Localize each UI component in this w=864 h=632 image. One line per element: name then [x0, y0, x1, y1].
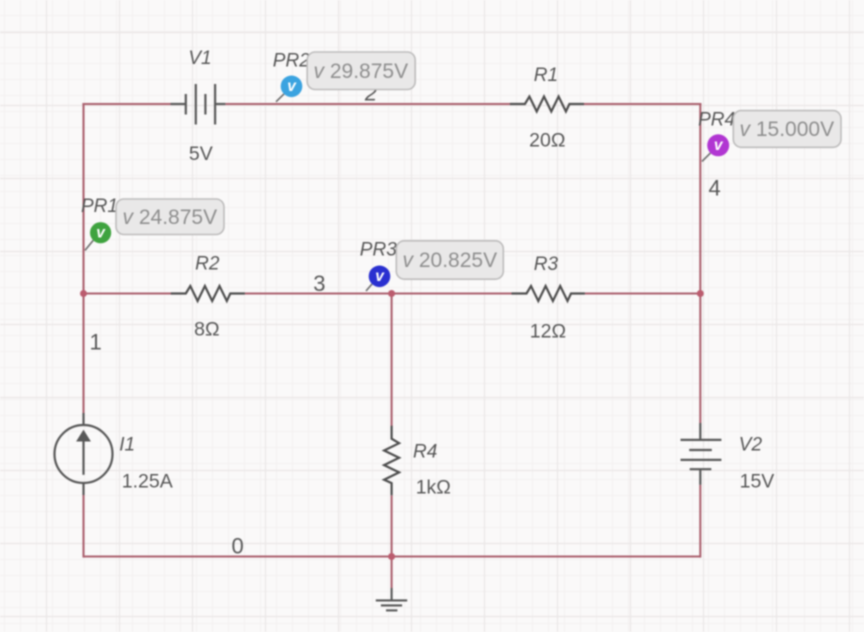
probe PR2 pointer — [276, 94, 284, 102]
svg-text:R2: R2 — [195, 254, 220, 275]
svg-text:3: 3 — [313, 271, 325, 296]
wire: top net 2 from V1 to R1 — [225, 103, 510, 105]
wire: R4 branch from R4 down to bottom net — [391, 495, 393, 556]
wire: middle net 3 from R2 to R3 — [245, 292, 512, 294]
svg-text:V1: V1 — [188, 48, 211, 69]
svg-text:R1: R1 — [534, 65, 558, 86]
junction: right middle node — [697, 290, 704, 297]
svg-text:v 24.875V: v 24.875V — [123, 206, 218, 229]
probe PR2 circle — [281, 76, 303, 98]
ground symbol — [376, 588, 407, 610]
wire: right vertical net 4 (upper segment) — [699, 103, 701, 423]
wire: right vertical net (below V2 to bottom corner) — [699, 485, 701, 558]
svg-text:v 20.825V: v 20.825V — [403, 249, 498, 272]
wire: middle net from left junction to R2 — [84, 292, 172, 294]
svg-text:v: v — [96, 224, 106, 241]
battery V2 — [681, 423, 722, 485]
resistor R2 — [171, 286, 245, 301]
svg-text:v: v — [714, 137, 724, 154]
probe PR3 circle — [369, 266, 391, 288]
svg-text:1kΩ: 1kΩ — [416, 477, 451, 499]
wire: bottom net 0 — [84, 555, 701, 557]
junction: node 3 at R4 branch — [388, 290, 395, 297]
junction: bottom node at ground — [388, 553, 395, 560]
svg-text:1: 1 — [90, 330, 102, 355]
probe PR1 pointer — [85, 240, 93, 250]
svg-text:4: 4 — [709, 176, 721, 201]
svg-text:I1: I1 — [119, 435, 135, 456]
wire: top net 2 from R1 to top-right corner — [584, 103, 701, 105]
probe PR4 value box v 15.000V — [733, 111, 841, 148]
junction: left middle node — [80, 290, 87, 297]
svg-text:PR2: PR2 — [273, 51, 310, 72]
wire: top net between left corner and V1 — [82, 103, 171, 105]
svg-text:v: v — [287, 78, 297, 95]
current source I1 — [55, 413, 113, 495]
svg-text:5V: 5V — [189, 143, 213, 165]
probe PR1 value box v 24.875V — [116, 199, 224, 235]
svg-text:0: 0 — [232, 534, 244, 559]
svg-text:v 29.875V: v 29.875V — [314, 60, 409, 83]
svg-text:20Ω: 20Ω — [529, 130, 565, 152]
resistor R1 — [510, 97, 584, 112]
svg-text:R3: R3 — [534, 254, 559, 275]
svg-text:PR1: PR1 — [81, 196, 118, 217]
probe PR4 pointer — [702, 153, 710, 161]
resistor R3 — [512, 286, 585, 301]
svg-text:v 15.000V: v 15.000V — [740, 118, 835, 141]
svg-text:v: v — [375, 268, 385, 285]
probe PR3 value box v 20.825V — [396, 241, 503, 279]
svg-text:R4: R4 — [413, 442, 437, 463]
wire: R4 branch from node 3 junction down to R4 — [391, 294, 393, 427]
svg-text:1.25A: 1.25A — [122, 471, 173, 493]
battery V1 — [171, 84, 226, 125]
wire: middle net from R3 to right junction — [585, 292, 700, 294]
svg-text:12Ω: 12Ω — [530, 321, 566, 343]
svg-text:8Ω: 8Ω — [194, 319, 219, 341]
svg-text:PR4: PR4 — [698, 110, 735, 131]
I1 arrow head — [76, 430, 91, 442]
probe PR2 value box v 29.875V — [307, 52, 415, 90]
wire: left vertical net 1 (upper red segment) — [82, 103, 84, 413]
svg-text:15V: 15V — [740, 471, 775, 493]
svg-text:V2: V2 — [739, 435, 763, 456]
probe PR3 pointer — [366, 284, 372, 291]
resistor R4 (vertical) — [384, 426, 399, 496]
wire: left vertical net 1 (lower red segment below I1) — [82, 495, 84, 558]
wire: ground stub below bottom net — [391, 557, 393, 589]
probe PR4 circle — [707, 134, 729, 156]
svg-text:PR3: PR3 — [360, 240, 397, 261]
probe PR1 circle — [90, 222, 111, 243]
